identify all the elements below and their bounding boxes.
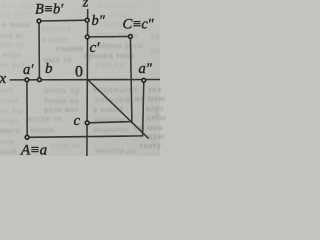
node a' [25,78,29,82]
wire a'' down to transfer corner [143,80,144,136]
wire C down to transfer corner [130,37,132,122]
node b'' [85,18,89,22]
node B=b' [37,19,41,23]
wire c' to C (horizontal projection line) [88,36,131,38]
wire B to b (vertical projection line) [38,21,40,80]
wire a' to A (vertical projection line) [26,80,28,138]
paper grain [0,0,160,156]
z / y axis [86,10,89,156]
node b [38,78,42,82]
node a'' [142,78,146,82]
node C=c'' [129,35,133,39]
node A=a [25,135,29,139]
wire B to b'' (horizontal projection line) [39,19,88,22]
node c' [85,35,89,39]
node c [85,121,89,125]
45 degree transfer line from origin [88,80,148,138]
x axis [10,79,160,81]
wire A horizontal to transfer corner [27,136,142,137]
faint bleed-through text rows [2,0,34,10]
wire c to transfer corner [87,122,132,123]
